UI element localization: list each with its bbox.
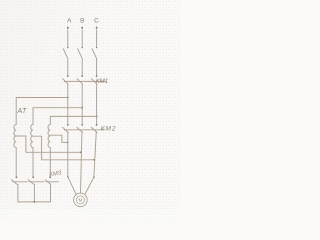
node tap3 junction <box>67 142 69 144</box>
contactor KM1 contact pole C <box>91 75 105 84</box>
wire AT coil 2 tap to motor line 3 <box>33 136 94 160</box>
contactor KM3 contact pole 2 <box>28 176 44 184</box>
motor M inner circle <box>76 196 84 204</box>
svg-text:КМ1: КМ1 <box>96 78 108 85</box>
wire B to KM1 <box>81 60 83 76</box>
wire motor line 2 <box>81 133 82 181</box>
contactor KM2 contact pole A <box>63 124 79 133</box>
node tap2 junction <box>93 159 95 161</box>
contactor KM3 contact pole 1 <box>11 176 27 184</box>
wire phase C drop <box>96 30 98 47</box>
svg-text:А: А <box>67 18 72 25</box>
svg-text:В: В <box>80 18 84 25</box>
wire branch A to AT coil 1 <box>16 98 68 125</box>
node tap1 junction <box>80 151 82 153</box>
node funnel left <box>67 176 69 178</box>
node C branch <box>96 116 98 118</box>
node B branch <box>81 107 83 109</box>
svg-text:КМ2: КМ2 <box>101 125 117 132</box>
wire AT coil 1 bottom to KM3 <box>15 148 17 177</box>
star point bus <box>18 201 51 203</box>
wire A KM1 to KM2 <box>67 84 69 124</box>
wire phase B drop <box>81 30 83 47</box>
svg-text:АТ: АТ <box>17 108 27 115</box>
wire B KM1 to KM2 <box>81 84 83 124</box>
wire KM3 pole 3 down <box>50 184 52 202</box>
wire branch B to AT coil 2 <box>33 108 82 125</box>
contactor KM1 contact pole A <box>63 75 79 84</box>
wire C to KM1 <box>96 60 98 76</box>
wire branch C to AT coil 3 <box>50 116 96 124</box>
motor M outer circle <box>74 193 88 207</box>
autotransformer coil 3 <box>48 124 50 147</box>
wire A to KM1 <box>67 60 69 76</box>
wire AT coil 3 bottom to KM3 <box>49 148 51 177</box>
wire motor line 3 <box>94 133 96 178</box>
svg-text:С: С <box>94 18 99 25</box>
knife switch QS pole B <box>78 47 83 59</box>
wire AT coil 1 tap to motor line 2 <box>16 136 81 152</box>
supply arrow B <box>81 27 83 29</box>
supply arrow C <box>96 27 98 29</box>
contactor KM3 contact pole 3 <box>45 176 58 184</box>
node funnel right <box>93 176 95 178</box>
wire AT coil 3 tap to motor line 1 <box>50 135 68 142</box>
supply arrow A <box>67 27 69 29</box>
wire AT coil 2 bottom to KM3 <box>32 148 34 177</box>
knife switch QS pole A <box>63 47 68 59</box>
wire KM3 pole 2 down <box>33 184 35 202</box>
wire funnel middle <box>80 181 82 193</box>
svg-text:М: М <box>79 198 83 203</box>
wire KM3 pole 1 down <box>17 184 19 202</box>
node A branch <box>67 97 69 99</box>
node star point <box>34 201 36 203</box>
knife switch QS pole C <box>92 47 97 59</box>
contactor KM1 contact pole B <box>77 75 93 84</box>
contactor KM2 contact pole B <box>77 124 93 133</box>
wire funnel right diagonal <box>85 177 94 194</box>
autotransformer coil 1 <box>14 124 16 147</box>
wire C KM1 to KM2 <box>96 84 98 124</box>
wire funnel left diagonal <box>68 177 76 195</box>
paper background <box>0 0 181 221</box>
wire motor line 1 <box>67 133 69 177</box>
autotransformer coil 2 <box>31 124 33 147</box>
contactor KM2 contact pole C <box>91 124 104 133</box>
wire phase A drop <box>67 30 69 47</box>
